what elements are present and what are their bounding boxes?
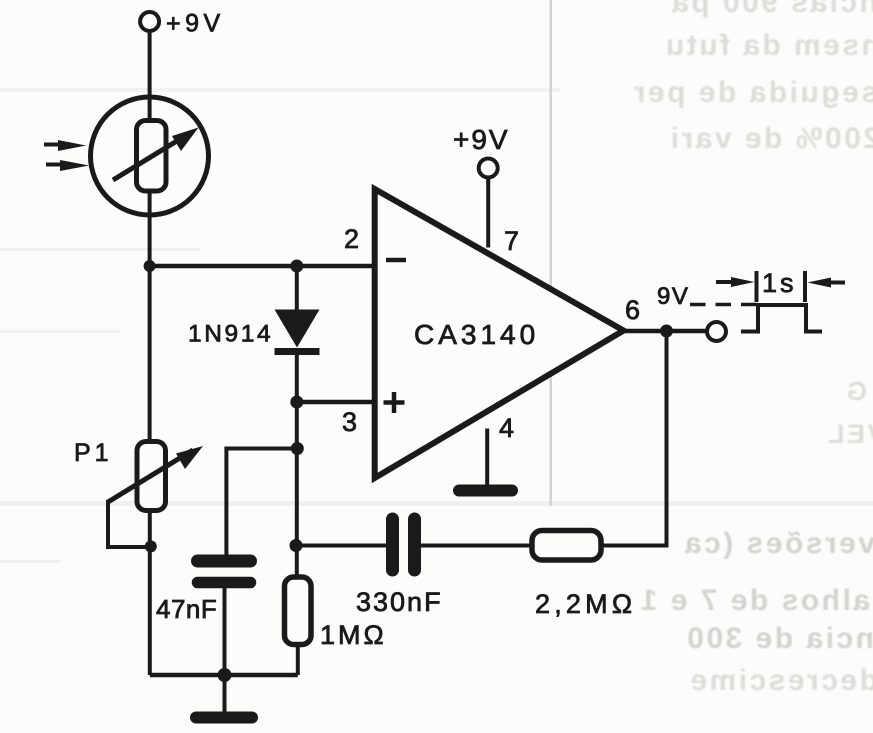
- resistor 2,2 MΩ: [532, 531, 601, 561]
- pin 4 ground wire: [485, 429, 489, 490]
- svg-text:+9V: +9V: [166, 10, 225, 38]
- svg-text:versões (ca: versões (ca: [682, 527, 873, 560]
- LDR (photoresistor): [91, 97, 209, 215]
- output wire pin 6: [623, 329, 707, 334]
- node F junction: [218, 668, 232, 682]
- node D junction: [291, 442, 304, 455]
- pin 7 supply wire: [486, 177, 490, 248]
- svg-text:1N914: 1N914: [188, 321, 273, 348]
- wire node D to node E: [295, 449, 299, 546]
- pulse waveform: [741, 305, 822, 332]
- 1s timing marks: [716, 271, 845, 302]
- svg-text:2,2MΩ: 2,2MΩ: [535, 589, 636, 619]
- svg-text:CA3140: CA3140: [414, 319, 539, 350]
- svg-text:330nF: 330nF: [356, 587, 443, 617]
- svg-text:9V: 9V: [657, 283, 689, 310]
- svg-text:decrescime: decrescime: [688, 664, 873, 697]
- op-amp U1 CA3140: [375, 189, 624, 478]
- svg-text:200% de vari: 200% de vari: [668, 122, 873, 155]
- svg-text:alhos de 7 e 1: alhos de 7 e 1: [638, 584, 870, 617]
- node E junction: [290, 539, 303, 552]
- svg-text:P1: P1: [74, 439, 113, 467]
- diode D1 1N914: [275, 310, 320, 352]
- wire node E to 1MΩ: [295, 546, 299, 580]
- wire node C to node D: [295, 402, 299, 449]
- wire +9V to LDR: [148, 31, 152, 99]
- svg-text:REVEL: REVEL: [825, 419, 873, 449]
- svg-text:7: 7: [504, 226, 519, 256]
- svg-text:seguida de per: seguida de per: [631, 76, 873, 109]
- svg-text:ncias 900 pa: ncias 900 pa: [670, 0, 873, 19]
- wiper node junction: [145, 540, 157, 552]
- svg-text:3: 3: [342, 407, 357, 437]
- capacitor 330nF: [393, 519, 415, 570]
- ground (bottom): [196, 712, 252, 724]
- potentiometer P1: [108, 266, 203, 547]
- feedback wire node G down to 2,2M line: [601, 331, 667, 546]
- ground (pin 4): [459, 485, 512, 497]
- wire P1 to bottom rail: [148, 510, 152, 675]
- svg-text:6: 6: [625, 295, 640, 325]
- light arrows into LDR: [44, 140, 89, 171]
- wire 330nF to node E: [296, 544, 386, 548]
- svg-text:1MΩ: 1MΩ: [320, 620, 387, 650]
- svg-text:47nF: 47nF: [156, 594, 217, 624]
- wire node C to op-amp pin 3: [297, 400, 375, 405]
- svg-text:ncia de 300: ncia de 300: [685, 622, 873, 655]
- wire 2,2M to 330nF: [421, 544, 532, 548]
- svg-text:4: 4: [499, 413, 514, 443]
- node A junction: [144, 260, 156, 272]
- wire diode to node C: [295, 353, 299, 402]
- +9V supply terminal (top left): [140, 12, 159, 31]
- dashed 9V level line: [690, 303, 757, 307]
- ground stem (bottom): [223, 675, 227, 712]
- bottom rail wire: [150, 673, 298, 678]
- node B junction: [290, 260, 303, 273]
- wire LDR to node A: [148, 215, 152, 266]
- node C junction: [290, 396, 303, 409]
- capacitor 47nF: [198, 555, 251, 675]
- wire node D to 47nF (top branch): [226, 449, 297, 558]
- svg-text:A G: A G: [844, 376, 873, 406]
- +9V supply terminal (pin 7): [479, 159, 498, 178]
- resistor 1MΩ: [285, 577, 312, 675]
- output node junction: [660, 325, 673, 338]
- wire node B to diode: [295, 266, 299, 310]
- svg-text:nsem da futu: nsem da futu: [663, 29, 873, 62]
- output terminal: [707, 322, 726, 341]
- svg-text:+9V: +9V: [453, 124, 510, 155]
- wire node A to op-amp pin 2: [150, 264, 375, 269]
- svg-text:1s: 1s: [762, 268, 797, 298]
- svg-text:2: 2: [344, 224, 359, 254]
